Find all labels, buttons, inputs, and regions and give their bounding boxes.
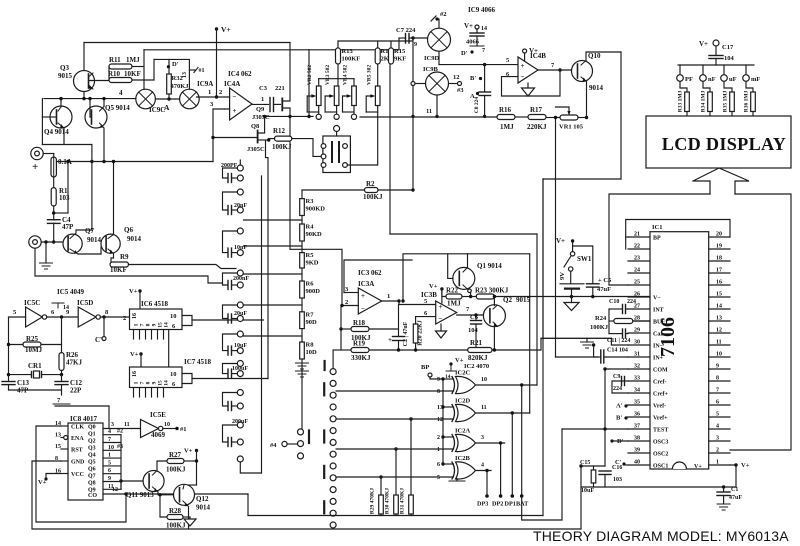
svg-text:2: 2 <box>716 448 719 454</box>
wire 4066 V+ stem <box>476 29 478 33</box>
ground IC3B <box>436 331 447 338</box>
wire 4066 pin7 stem <box>476 36 478 46</box>
opamp plus <box>361 292 365 300</box>
capacitor range 7 <box>228 402 232 411</box>
pin 7 stub right <box>709 392 730 394</box>
junction Q8 source <box>267 138 270 141</box>
wiper bottom link VR5 <box>366 111 378 113</box>
wire negative rail to switch <box>35 248 223 283</box>
svg-text:Cref+: Cref+ <box>653 392 669 398</box>
label plus <box>32 161 38 173</box>
svg-text:100KJ: 100KJ <box>590 324 609 331</box>
label C13 <box>17 379 30 387</box>
junction CR1 left <box>7 373 10 376</box>
label Q7 value 9014 <box>87 236 102 244</box>
label R3 value 900KD <box>306 206 326 213</box>
terminal 4066 pin14 <box>475 25 479 29</box>
junction Q8 gate <box>211 136 214 139</box>
wire top bus 1 <box>84 42 290 44</box>
label IC8 pin16 <box>55 469 61 475</box>
label R18 <box>353 319 366 327</box>
selector bar col2 y507 <box>323 501 325 513</box>
label Q9 <box>256 106 265 113</box>
wire C5 bottom <box>592 287 594 297</box>
label V+ IC2 <box>455 357 464 364</box>
label R17 <box>530 106 543 114</box>
svg-text:13: 13 <box>716 316 722 322</box>
junction R29 tap <box>379 475 382 478</box>
svg-text:15: 15 <box>716 292 722 298</box>
label IC8 Q7 <box>88 474 96 480</box>
transistor Q9 gate <box>281 98 283 110</box>
wire Q bus ext <box>120 481 122 489</box>
label C2 47uF <box>403 321 409 346</box>
wire SW1 V+ to C5 <box>573 246 593 284</box>
svg-text:IC7 4518: IC7 4518 <box>184 358 212 366</box>
wire cap2 to contact <box>232 252 238 254</box>
wire Q11 emitter <box>158 492 175 495</box>
wire IC4B feedback <box>502 70 561 96</box>
wire cap6 to contact <box>232 373 238 375</box>
svg-text:DP1: DP1 <box>505 501 516 508</box>
label C5 value 47uF <box>597 286 611 293</box>
junction Q3 emitter node <box>82 97 85 100</box>
capacitor C15 <box>591 470 596 483</box>
wire selector bracket 3 <box>223 273 238 285</box>
contact circle pair1 top <box>237 189 243 195</box>
ground col2 <box>296 363 309 369</box>
wire bus 11 <box>360 116 497 118</box>
svg-text:5: 5 <box>437 475 440 481</box>
resistor R31 <box>409 495 414 514</box>
trimmer left contact y165 <box>321 163 326 168</box>
wire Q11 base <box>121 480 145 482</box>
wire IC5C out <box>47 316 79 318</box>
resistor R30 <box>394 495 399 514</box>
wire cap3 to contact <box>232 284 238 286</box>
junction Q12 base <box>158 493 161 496</box>
wire IC3A pin3 <box>344 292 358 294</box>
svg-text:J305C: J305C <box>247 146 265 153</box>
wire main input bus <box>56 161 213 163</box>
label C11 224 <box>607 338 630 344</box>
resistor R7 <box>300 312 305 329</box>
wire R20 top to pin6 <box>416 317 436 324</box>
wire cap4 to contact <box>232 318 238 320</box>
label BP <box>421 364 429 371</box>
potentiometer VR1 <box>560 115 578 120</box>
label VR4 502 <box>343 65 349 86</box>
label C10 <box>609 299 619 305</box>
title THEORY DIAGRAM MODEL: MY6013A <box>533 528 789 544</box>
wire IC6 bottom stub x133.5 <box>133 330 135 340</box>
wire selector bracket 0 <box>223 168 238 178</box>
label R28 <box>169 507 182 515</box>
pin 4 stub right <box>709 428 730 430</box>
transistor Q7 leads <box>70 233 78 255</box>
wire R18 left <box>341 328 351 330</box>
pin 25 stub <box>628 284 650 286</box>
svg-text:16: 16 <box>132 313 138 319</box>
power IC2 pin7 bar <box>449 480 465 482</box>
pin 31 number <box>634 352 640 358</box>
svg-text:A: A <box>470 93 475 100</box>
wire IC2A out <box>477 442 505 444</box>
label IC6 pin10 <box>170 313 177 320</box>
junction C2 bus <box>397 348 400 351</box>
svg-text:Q4: Q4 <box>88 453 96 459</box>
wire left bottom rail <box>580 466 582 529</box>
wire R32 top lead <box>168 59 170 74</box>
resistor R2 <box>365 188 379 193</box>
contact circle pair2 top <box>237 228 243 234</box>
wire R34 1MJ top <box>703 82 710 93</box>
wire col2 top riser <box>332 350 334 369</box>
wire Q8 out <box>103 488 121 490</box>
wire comparator riser <box>403 254 448 301</box>
pin 23 number <box>634 256 640 262</box>
svg-text:R31 470KJ: R31 470KJ <box>400 488 406 514</box>
wire BP loop <box>626 220 730 250</box>
label cap 20nF <box>234 203 247 209</box>
capacitor C7 <box>406 34 410 44</box>
wire C11 line right <box>627 333 629 335</box>
capacitor range 2 <box>228 248 232 257</box>
transistor Q5 <box>85 106 107 128</box>
svg-text:Q6: Q6 <box>124 226 133 234</box>
svg-text:18: 18 <box>716 256 722 262</box>
wire bus2 drop <box>308 50 310 117</box>
svg-text:R15: R15 <box>394 48 406 55</box>
label IC2D out 11 <box>481 405 487 411</box>
pin 24 number <box>634 268 640 274</box>
wire R13-15 top bus <box>338 40 412 42</box>
svg-text:#3: #3 <box>457 87 464 94</box>
pin 28 stub <box>628 320 650 322</box>
wire IC3B out <box>457 314 484 316</box>
trimmer top terminal <box>334 126 340 132</box>
label R31 470KJ <box>400 488 406 514</box>
svg-text:IC2D: IC2D <box>455 398 470 405</box>
wire range tap y220 <box>244 219 303 221</box>
inverter IC5D <box>78 307 100 327</box>
label IC7 pin6 <box>172 381 176 388</box>
wire IC3A feedback top <box>290 116 342 305</box>
wire R32 bottom lead <box>168 94 170 99</box>
label IC2D in 13 <box>437 405 443 411</box>
contact col2 1 <box>330 380 336 386</box>
label R23 300KJ <box>475 287 509 295</box>
wire Q5 base lead <box>90 116 92 118</box>
resistor R6 <box>300 281 305 298</box>
label A node <box>164 103 170 112</box>
svg-text:19: 19 <box>716 244 722 250</box>
svg-text:BP: BP <box>653 236 661 242</box>
label Q1 9014 <box>477 262 502 270</box>
crystal CR1 <box>32 371 42 378</box>
pin 35 name Vref- <box>653 404 666 410</box>
label Q9 J305C <box>252 114 270 121</box>
pin 1 number <box>716 460 719 466</box>
svg-text:V+: V+ <box>130 351 139 358</box>
svg-text:47uF: 47uF <box>729 495 742 501</box>
junction R32 bottom <box>167 97 170 100</box>
svg-text:+: + <box>361 292 365 300</box>
label V+ IC4B <box>529 47 538 55</box>
label IC2A out 3 <box>481 435 484 441</box>
label q1 4 <box>108 429 111 435</box>
wire A-prime <box>627 404 628 406</box>
wire Q4 emitter <box>63 128 65 145</box>
transistor Q2 <box>483 305 505 327</box>
label IC3A <box>358 280 374 288</box>
junction ground stem <box>44 240 47 243</box>
wire C11 line left <box>609 333 622 335</box>
label C2 plus <box>388 336 392 344</box>
cap bar col2 top <box>324 361 326 370</box>
wire Q bus bracket <box>120 435 122 490</box>
label R4 value 90KD <box>306 231 323 238</box>
label VR2 502 <box>307 65 313 86</box>
label SW1 <box>577 255 592 263</box>
svg-text:#3: #3 <box>117 444 123 450</box>
contact col2 11 <box>330 498 336 504</box>
svg-text:nF: nF <box>708 76 716 83</box>
ground battery <box>564 303 579 311</box>
wire long tap A <box>261 176 263 473</box>
contact circle pair4 top <box>237 302 243 308</box>
wire divider to ground <box>301 359 303 371</box>
pin 3 stub right <box>709 440 730 442</box>
wire R14 top <box>377 41 379 48</box>
pin 15 number <box>716 292 722 298</box>
terminal DP2 <box>499 494 503 498</box>
svg-text:R13: R13 <box>342 48 354 55</box>
svg-text:10: 10 <box>170 313 177 320</box>
svg-text:C16: C16 <box>612 465 622 471</box>
svg-text:R30 470KJ: R30 470KJ <box>385 488 391 514</box>
wire R9 output line <box>129 265 237 269</box>
capacitor C17 <box>709 56 723 59</box>
wire osc bottom link <box>9 389 62 391</box>
pin 40 number <box>634 460 640 466</box>
wire col2 bus link <box>333 349 341 351</box>
pin IC8 CLK stub <box>61 425 68 427</box>
resistor R1 <box>51 188 56 206</box>
svg-text:−: − <box>521 73 525 81</box>
junction Q5 emitter bus <box>102 160 105 163</box>
wire IC2C in1 <box>443 378 454 380</box>
label R8 value 10D <box>306 349 318 356</box>
wire C7 left lead <box>399 37 406 39</box>
wire C17 stem <box>715 46 717 56</box>
wire Q3 out <box>103 449 121 451</box>
bubble ENA <box>64 436 68 440</box>
selector bar col2 y471 <box>323 466 325 478</box>
wire IN+ to pin31 <box>556 356 599 358</box>
pin 36 number <box>634 412 640 418</box>
capacitor range 6 <box>228 369 232 378</box>
contact circle pair7 bottom <box>237 403 243 409</box>
label C3 <box>259 85 268 92</box>
label R6 <box>306 281 315 288</box>
switch SW1 blade <box>564 256 571 267</box>
svg-text:Caz: Caz <box>653 332 663 338</box>
svg-text:OSC3: OSC3 <box>653 440 668 446</box>
label pin6 <box>424 310 428 317</box>
label hash1 <box>180 426 187 433</box>
wire C15 top line <box>581 465 605 467</box>
label R19 value 330KJ <box>351 354 371 362</box>
wire R18 right <box>369 328 399 330</box>
svg-text:Q1 9014: Q1 9014 <box>477 262 502 270</box>
svg-text:14: 14 <box>164 380 170 386</box>
transistor Q10 <box>572 61 593 82</box>
contact mini col 431.9 <box>298 429 304 435</box>
wire selector bracket 7 <box>223 393 238 407</box>
terminal C-prime2 <box>622 462 625 465</box>
battery B1 <box>560 284 584 289</box>
wire divider link 1 <box>301 216 303 225</box>
pin 13 stub right <box>709 320 730 322</box>
svg-text:D': D' <box>172 61 179 68</box>
capacitor 4066 bypass <box>470 33 484 36</box>
wire C1 bottom <box>723 496 725 505</box>
wire B-prime <box>627 416 628 418</box>
junction IC2B out <box>485 469 488 472</box>
pin 27 number <box>634 304 640 310</box>
resistor R27 <box>167 459 184 464</box>
wire left frame <box>609 194 710 285</box>
wire C14 line <box>594 356 600 358</box>
pin 10 stub right <box>709 356 730 358</box>
label IC8 CO <box>88 493 97 499</box>
svg-text:33: 33 <box>634 376 640 382</box>
label IC9D <box>424 55 439 62</box>
svg-text:38: 38 <box>634 436 640 442</box>
terminal mF <box>743 75 750 82</box>
svg-text:R23 300KJ: R23 300KJ <box>475 287 509 295</box>
svg-text:3: 3 <box>111 422 114 428</box>
wire pin25 link <box>609 284 628 286</box>
svg-text:10MJ: 10MJ <box>25 346 43 354</box>
pin 6 stub right <box>709 404 730 406</box>
junction R30 tap <box>394 447 397 450</box>
svg-text:R25: R25 <box>26 335 39 343</box>
selector bar hash4 <box>308 431 310 444</box>
resistor R15 <box>389 48 394 64</box>
junction BP IC2A <box>441 435 444 438</box>
label IC6 pin6 <box>172 323 176 330</box>
label IC2D <box>455 398 470 405</box>
svg-text:J305C: J305C <box>252 114 270 121</box>
svg-text:221: 221 <box>275 85 285 92</box>
svg-text:Q0: Q0 <box>88 425 96 431</box>
wire R25 left lead <box>9 344 24 346</box>
pin 37 stub <box>628 428 650 430</box>
svg-text:BAT: BAT <box>516 501 529 508</box>
terminal V+ pin1 <box>734 463 737 466</box>
wire IC6 bottom stub x139.5 <box>139 330 141 340</box>
junction x413 bus <box>411 115 414 118</box>
svg-text:16: 16 <box>132 371 138 377</box>
svg-text:IC2B: IC2B <box>455 455 470 462</box>
pin 14 stub right <box>709 308 730 310</box>
junction BP IC2B <box>441 462 444 465</box>
resistor R21 <box>468 348 492 353</box>
pin 25 number <box>634 280 640 286</box>
label C1 <box>731 487 738 493</box>
svg-text:1: 1 <box>437 447 440 453</box>
junction C8 bus <box>483 115 486 118</box>
label IC2D in 12 <box>437 417 443 423</box>
wire Q2 emitter <box>493 327 495 350</box>
terminal hash4 <box>282 441 287 446</box>
svg-text:9: 9 <box>716 364 719 370</box>
label Q12 <box>196 495 209 503</box>
svg-text:2: 2 <box>219 89 222 96</box>
wire trimmer top stem <box>336 132 338 137</box>
wiper wire VR4 <box>343 96 348 112</box>
junction C15 rail <box>579 464 582 467</box>
junction SW1 V+ <box>571 239 574 242</box>
label 4066 <box>466 39 480 46</box>
label PF <box>685 76 693 83</box>
wire R15 top <box>390 41 392 48</box>
label C9 value 224 <box>613 386 622 392</box>
svg-text:R17: R17 <box>530 106 543 114</box>
wire R1 bottom link <box>54 212 68 214</box>
label 14 <box>63 305 69 311</box>
pin 21 stub <box>628 236 650 238</box>
capacitor C14 <box>601 350 604 363</box>
wire C12 top <box>61 375 63 382</box>
svg-text:mF: mF <box>751 76 760 83</box>
junction IC6 V+ <box>138 289 141 292</box>
label uF <box>729 76 737 83</box>
pin 39 name OSC2 <box>653 452 668 458</box>
label IC7 pin10 <box>170 371 177 378</box>
transistor Q1 <box>453 267 475 289</box>
svg-text:8: 8 <box>716 376 719 382</box>
wire R2 line <box>302 189 365 191</box>
label C6 value 104 <box>468 327 479 334</box>
wire R19 left <box>341 349 351 351</box>
svg-text:VR1 105: VR1 105 <box>559 124 584 131</box>
svg-text:14: 14 <box>164 322 170 328</box>
svg-text:39: 39 <box>634 448 640 454</box>
label IC2C in 8 <box>437 389 440 395</box>
pin 34 number <box>634 388 640 394</box>
wiper wire VR5 <box>366 96 371 112</box>
svg-text:9015: 9015 <box>58 72 73 80</box>
label R7 value 90D <box>306 319 318 326</box>
label IC8 GND <box>71 460 85 466</box>
wire C-prime2 <box>625 464 628 466</box>
pin 22 stub <box>628 248 650 250</box>
svg-text:V+: V+ <box>129 288 138 295</box>
contact circle pair8 bottom <box>237 439 243 445</box>
wire R28 loop <box>160 495 167 517</box>
wire VR tops bus <box>319 78 354 80</box>
terminal B-prime <box>624 416 627 419</box>
wire col2 gnd stem <box>301 369 303 429</box>
pot arrow VR2 <box>311 94 316 98</box>
wire IC6 bottom stub x157.5 <box>157 330 159 340</box>
wire C7 right lead <box>409 37 428 39</box>
label pin 7 <box>57 397 61 404</box>
label R21 <box>470 339 483 347</box>
